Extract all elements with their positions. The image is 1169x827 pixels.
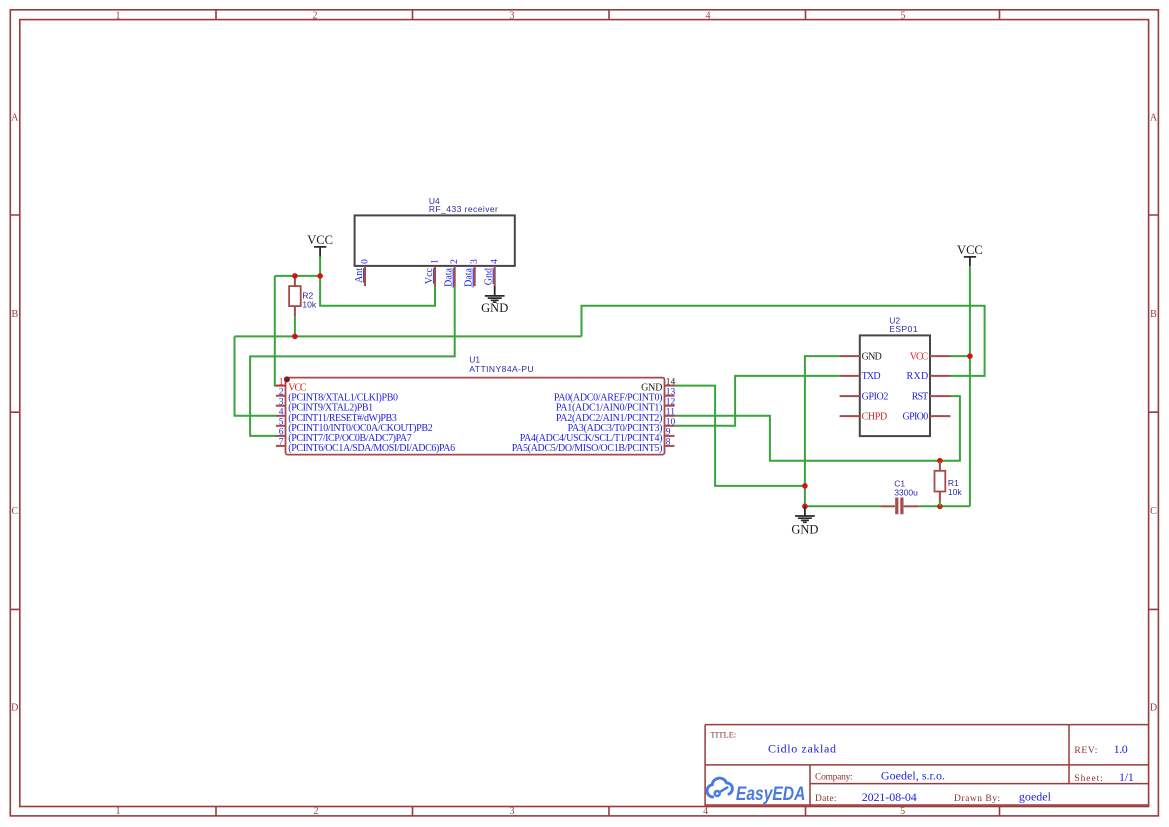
svg-text:1: 1	[116, 806, 121, 817]
svg-text:1.0: 1.0	[1114, 742, 1128, 756]
svg-text:A: A	[11, 113, 19, 124]
svg-text:3: 3	[510, 806, 515, 817]
svg-text:GPIO2: GPIO2	[862, 391, 889, 402]
capacitor C1	[881, 479, 919, 515]
svg-text:8: 8	[666, 438, 671, 448]
svg-text:2: 2	[313, 11, 318, 22]
svg-text:B: B	[1150, 309, 1157, 320]
svg-text:4: 4	[703, 806, 708, 817]
svg-text:2: 2	[314, 806, 319, 817]
junction R1 top	[937, 458, 943, 464]
svg-text:1: 1	[116, 11, 121, 22]
svg-text:2: 2	[279, 388, 284, 398]
wire VCC to U4 Vcc pin	[320, 276, 435, 306]
svg-text:C: C	[1150, 506, 1157, 517]
svg-text:Drawn By:: Drawn By:	[954, 794, 1000, 804]
svg-text:5: 5	[901, 11, 906, 22]
wire C1 to VCC corner	[919, 505, 970, 507]
svg-text:GND: GND	[481, 301, 508, 315]
U4 pin 0 Ant	[354, 259, 371, 286]
junction GND rail	[802, 504, 808, 510]
wire RESET net riser	[582, 306, 985, 376]
svg-text:1: 1	[279, 377, 284, 387]
wire R1 bottom stub	[939, 502, 941, 507]
svg-text:VCC: VCC	[910, 351, 929, 362]
op IC U1 ATTINY84A-PU box	[284, 355, 665, 455]
U1 pin 7	[276, 438, 455, 454]
svg-text:1/1: 1/1	[1119, 770, 1134, 784]
svg-text:3: 3	[510, 11, 515, 22]
svg-text:Sheet:: Sheet:	[1074, 774, 1102, 784]
wire ESP VCC stub link	[951, 355, 970, 357]
svg-text:14: 14	[666, 377, 676, 387]
svg-text:10: 10	[666, 418, 676, 428]
U2 pin GND	[840, 351, 882, 362]
U1 pin 11	[556, 408, 675, 424]
svg-text:3: 3	[279, 398, 284, 408]
svg-text:4: 4	[279, 408, 284, 418]
svg-text:6: 6	[279, 428, 284, 438]
svg-text:5: 5	[279, 418, 284, 428]
ground GND2	[791, 506, 818, 536]
svg-text:0: 0	[361, 259, 371, 264]
power VCC symbol 2	[957, 243, 983, 266]
ground GND1 under U4	[481, 286, 508, 315]
svg-text:5: 5	[900, 806, 905, 817]
svg-text:CHPD: CHPD	[862, 411, 888, 422]
svg-text:RXD: RXD	[907, 371, 929, 382]
U4 pin 3 Data	[464, 259, 481, 288]
U1 pin 10	[568, 418, 676, 434]
U2 pin RST	[912, 391, 951, 402]
U2 pin RXD	[907, 371, 951, 382]
svg-text:C: C	[11, 506, 18, 517]
svg-text:GND: GND	[862, 351, 882, 362]
IC U2 ESP01 box	[860, 315, 930, 436]
wire R2 bottom	[294, 316, 296, 336]
svg-text:Cidlo zaklad: Cidlo zaklad	[768, 742, 836, 756]
power VCC symbol 1	[307, 233, 333, 276]
resistor R1	[935, 461, 963, 502]
svg-text:4: 4	[706, 11, 711, 22]
svg-text:EasyEDA: EasyEDA	[736, 784, 806, 805]
wire VCC1 horizontal	[275, 275, 320, 277]
svg-text:7: 7	[279, 438, 284, 448]
svg-text:4: 4	[490, 259, 500, 264]
junction VCC1	[317, 273, 323, 279]
wire VCC1 down to U1 pin1	[275, 276, 277, 386]
svg-text:ESP01: ESP01	[889, 324, 918, 334]
U2 pin GPIO2	[840, 391, 889, 402]
U4 pin 1 Vcc	[424, 259, 441, 286]
U1 pin 13	[554, 388, 676, 404]
svg-text:GND: GND	[791, 523, 818, 537]
junction R2 bottom	[292, 334, 298, 340]
U4 RF_433 receiver box	[355, 196, 515, 266]
svg-text:10k: 10k	[302, 300, 316, 310]
U1 pin 8	[512, 438, 675, 454]
svg-text:goedel: goedel	[1019, 790, 1052, 804]
U1 pin 6	[276, 428, 412, 444]
svg-text:13: 13	[666, 388, 676, 398]
wire GND rail to C1	[805, 505, 881, 507]
title block	[705, 725, 1149, 807]
svg-text:3: 3	[470, 259, 480, 264]
svg-text:9: 9	[666, 428, 671, 438]
svg-text:2021-08-04: 2021-08-04	[862, 790, 917, 804]
U1 pin 1 VCC	[276, 377, 307, 393]
U4 pin 4 Gnd	[484, 259, 501, 286]
EasyEDA logo	[707, 778, 805, 805]
wire U4 Data2 to U1 pin6	[250, 286, 455, 436]
svg-text:2: 2	[450, 259, 460, 264]
svg-text:REV:: REV:	[1074, 746, 1097, 756]
svg-text:11: 11	[666, 408, 675, 418]
wire U1 pin11 to ESP RST	[675, 396, 960, 461]
resistor R2	[289, 276, 317, 316]
U1 pin 2	[276, 388, 398, 404]
svg-text:PA5(ADC5/DO/MISO/OC1B/PCINT5): PA5(ADC5/DO/MISO/OC1B/PCINT5)	[512, 443, 663, 454]
svg-text:B: B	[11, 309, 18, 320]
wire VCC2 vertical	[969, 266, 971, 506]
wire U1 pin10 to ESP TXD	[675, 376, 840, 426]
junction R1 bottom	[937, 504, 943, 510]
junction GND upper	[802, 483, 808, 489]
svg-text:D: D	[1150, 703, 1157, 714]
svg-text:TXD: TXD	[862, 371, 881, 382]
svg-text:Company:: Company:	[815, 773, 853, 783]
wire U1 pin14 GND route	[675, 386, 805, 486]
U1 pin 9	[520, 428, 675, 444]
svg-text:3300u: 3300u	[894, 488, 918, 498]
svg-text:RF_433 receiver: RF_433 receiver	[429, 204, 498, 214]
U4 pin 2 Data	[444, 259, 461, 288]
U2 pin VCC	[910, 351, 951, 362]
U1 pin 12	[556, 398, 676, 414]
wire RESET net horizontal	[235, 335, 582, 337]
svg-text:TITLE:: TITLE:	[710, 730, 736, 740]
U2 pin TXD	[840, 371, 881, 382]
svg-text:D: D	[11, 703, 18, 714]
svg-text:A: A	[1150, 113, 1158, 124]
svg-text:VCC: VCC	[307, 233, 333, 247]
svg-text:12: 12	[666, 398, 676, 408]
svg-text:RST: RST	[912, 391, 928, 402]
junction R2 top	[292, 273, 298, 279]
svg-text:(PCINT6/OC1A/SDA/MOSI/DI/ADC6): (PCINT6/OC1A/SDA/MOSI/DI/ADC6)PA6	[288, 443, 455, 454]
wire ESP GND vertical	[805, 356, 840, 506]
U1 pin 4	[276, 408, 397, 424]
svg-text:VCC: VCC	[957, 243, 983, 257]
U2 pin GPIO0	[903, 411, 951, 422]
junction ESP VCC	[967, 353, 973, 359]
svg-text:Date:: Date:	[815, 794, 837, 804]
svg-text:ATTINY84A-PU: ATTINY84A-PU	[469, 364, 533, 374]
wire RESET to U1 pin4	[235, 336, 277, 415]
U1 pin 3	[276, 398, 373, 414]
U1 pin 5	[276, 418, 433, 434]
svg-text:GPIO0: GPIO0	[903, 411, 929, 422]
U2 pin CHPD	[840, 411, 888, 422]
svg-text:Goedel, s.r.o.: Goedel, s.r.o.	[881, 769, 945, 783]
U1 pin 14 GND	[641, 377, 675, 393]
svg-text:1: 1	[431, 259, 441, 264]
svg-text:10k: 10k	[948, 487, 962, 497]
